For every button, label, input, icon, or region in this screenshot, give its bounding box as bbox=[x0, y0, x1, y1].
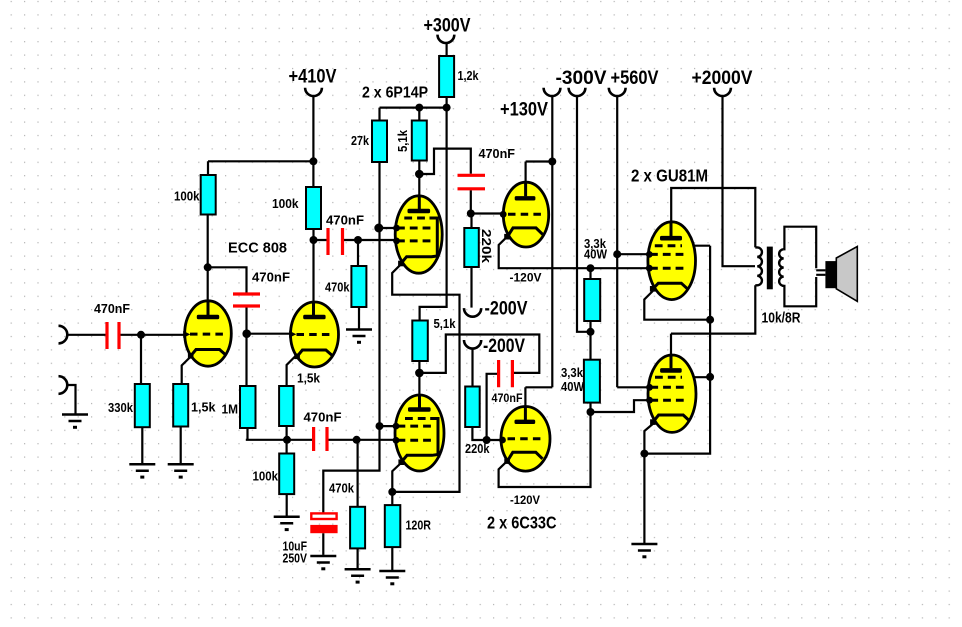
svg-text:+130V: +130V bbox=[500, 99, 548, 121]
svg-text:5,1k: 5,1k bbox=[434, 316, 457, 331]
svg-text:2 x GU81M: 2 x GU81M bbox=[631, 166, 708, 186]
svg-text:220k: 220k bbox=[465, 441, 490, 456]
svg-text:330k: 330k bbox=[108, 400, 134, 415]
svg-text:+560V: +560V bbox=[611, 67, 659, 89]
svg-text:-120V: -120V bbox=[510, 495, 540, 507]
svg-text:470k: 470k bbox=[329, 481, 355, 496]
svg-text:3,3k: 3,3k bbox=[561, 365, 584, 380]
svg-text:40W: 40W bbox=[561, 379, 585, 394]
svg-text:-200V: -200V bbox=[483, 335, 525, 357]
svg-text:250V: 250V bbox=[283, 551, 308, 566]
svg-text:+300V: +300V bbox=[424, 15, 471, 37]
svg-text:470nF: 470nF bbox=[326, 213, 364, 228]
svg-text:470nF: 470nF bbox=[492, 391, 523, 405]
svg-text:1,5k: 1,5k bbox=[297, 371, 321, 386]
svg-text:-200V: -200V bbox=[485, 298, 528, 320]
svg-text:-120V: -120V bbox=[510, 273, 542, 285]
svg-text:120R: 120R bbox=[406, 518, 432, 533]
svg-text:10k/8R: 10k/8R bbox=[762, 311, 801, 327]
svg-text:+2000V: +2000V bbox=[692, 67, 753, 89]
svg-text:ECC 808: ECC 808 bbox=[228, 241, 287, 257]
svg-text:2 x 6C33C: 2 x 6C33C bbox=[487, 513, 557, 533]
svg-text:1M: 1M bbox=[222, 402, 239, 417]
svg-text:-300V: -300V bbox=[556, 67, 607, 89]
svg-text:100k: 100k bbox=[272, 196, 299, 211]
svg-text:470k: 470k bbox=[325, 280, 350, 295]
svg-text:100k: 100k bbox=[253, 469, 279, 484]
svg-text:100k: 100k bbox=[174, 189, 200, 204]
svg-text:470nF: 470nF bbox=[304, 410, 342, 425]
svg-text:+410V: +410V bbox=[289, 66, 337, 88]
svg-text:27k: 27k bbox=[351, 133, 370, 148]
svg-text:1,5k: 1,5k bbox=[191, 400, 216, 415]
svg-text:1,2k: 1,2k bbox=[458, 68, 480, 83]
svg-text:220k: 220k bbox=[479, 229, 494, 264]
svg-text:470nF: 470nF bbox=[94, 301, 130, 316]
svg-text:5,1k: 5,1k bbox=[396, 130, 410, 152]
svg-text:470nF: 470nF bbox=[479, 146, 516, 161]
svg-text:40W: 40W bbox=[584, 247, 608, 262]
svg-text:2 x 6P14P: 2 x 6P14P bbox=[362, 85, 428, 102]
svg-text:470nF: 470nF bbox=[252, 270, 290, 285]
